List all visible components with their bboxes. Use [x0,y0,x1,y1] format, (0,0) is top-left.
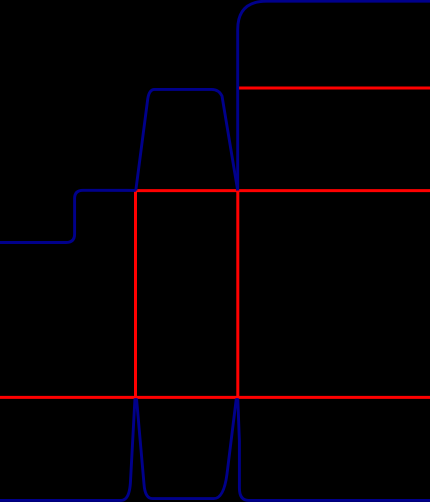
crease: middle horizontal fold [135,189,430,192]
cut line: bottom edge with two notch spikes [0,400,430,501]
crease: right vertical fold of centre panel [236,191,239,398]
cut line: dust-flap trapezoid tab [136,89,238,190]
cut line: left stepped edge [0,190,136,242]
crease: left vertical fold of centre panel [134,191,137,398]
cut line: top-right flap edge (horizontal top, rounded corner, vertical side) [238,1,430,190]
crease: top horizontal fold of right panel [238,87,430,90]
crease: lower horizontal fold [0,396,430,399]
